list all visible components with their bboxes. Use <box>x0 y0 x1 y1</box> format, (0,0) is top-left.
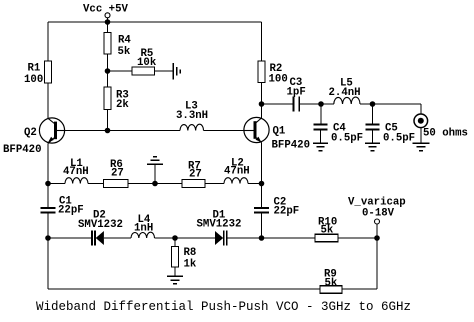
wire mid ground stem <box>154 164 156 184</box>
svg-text:0.5pF: 0.5pF <box>331 133 363 145</box>
resistor R4 <box>107 22 109 33</box>
resistor R1 <box>45 61 52 83</box>
wire top rail <box>48 21 262 23</box>
wire base row Q2 to L3 <box>65 130 180 132</box>
wire L5 to output <box>360 104 421 114</box>
ground right of R5 <box>173 63 180 80</box>
Vcc terminal <box>105 13 110 18</box>
inductor L2 <box>224 178 248 184</box>
svg-text:5k: 5k <box>325 278 338 290</box>
junction left mid row <box>45 181 51 187</box>
junction base row <box>105 128 111 134</box>
svg-text:Q2: Q2 <box>24 127 37 139</box>
svg-text:Wideband Differential Push-Pus: Wideband Differential Push-Push VCO - 3G… <box>36 300 411 314</box>
svg-text:27: 27 <box>111 168 124 180</box>
resistor R8 <box>174 238 176 247</box>
capacitor C4 <box>320 104 322 124</box>
svg-text:0.5pF: 0.5pF <box>383 133 415 145</box>
svg-text:SMV1232: SMV1232 <box>78 219 123 231</box>
capacitor C3 <box>262 103 293 105</box>
varactor diode D1 <box>215 231 223 245</box>
junction left diode row <box>45 235 51 241</box>
ground under C5 <box>365 143 380 151</box>
wire Vcc stem <box>107 18 109 22</box>
svg-text:1pF: 1pF <box>287 87 306 99</box>
svg-text:50 ohms: 50 ohms <box>423 128 468 140</box>
wire V_varicap down <box>376 238 378 289</box>
wire diode row left <box>48 237 91 239</box>
inductor L1 <box>48 183 65 185</box>
wire bottom rail <box>48 288 320 290</box>
resistor R2 <box>261 22 263 61</box>
svg-text:5k: 5k <box>118 46 131 58</box>
capacitor C5 <box>372 104 374 124</box>
inductor L4 <box>131 232 155 238</box>
transistor Q2 <box>3 118 65 156</box>
junction R4/R5/R3 <box>105 68 111 74</box>
capacitor C1 <box>47 184 49 208</box>
svg-text:5k: 5k <box>321 225 334 237</box>
svg-text:100: 100 <box>269 74 288 86</box>
ground middle inverted <box>147 157 163 164</box>
ground under output <box>412 143 429 151</box>
wire R4 to junction <box>107 54 109 71</box>
junction R8 node <box>172 235 178 241</box>
svg-text:100: 100 <box>24 74 43 86</box>
svg-text:Q1: Q1 <box>273 126 286 138</box>
svg-text:47nH: 47nH <box>224 166 250 178</box>
junction L5/C5 <box>370 101 376 107</box>
junction Vcc rail <box>105 19 111 25</box>
wire Q1 emitter down <box>261 142 263 183</box>
junction V_varicap <box>374 235 380 241</box>
junction right mid row <box>259 181 265 187</box>
wire R1 to Q2 collector <box>47 83 49 118</box>
varactor diode D2 <box>92 231 95 246</box>
transistor Q1 <box>244 117 310 151</box>
svg-text:1k: 1k <box>184 259 197 271</box>
svg-text:SMV1232: SMV1232 <box>197 219 242 231</box>
svg-text:27: 27 <box>189 169 202 181</box>
svg-text:R8: R8 <box>184 247 197 259</box>
resistor R5 <box>108 70 133 72</box>
junction mid ground <box>152 181 158 187</box>
inductor L3 <box>180 124 204 130</box>
svg-text:1nH: 1nH <box>134 223 153 235</box>
svg-text:22pF: 22pF <box>274 206 300 218</box>
wire left rail upper <box>47 22 49 61</box>
resistor R3 <box>107 71 109 87</box>
wire Q1 collector <box>261 104 263 118</box>
svg-text:BFP420: BFP420 <box>3 144 41 156</box>
svg-text:10k: 10k <box>137 57 157 69</box>
svg-text:2k: 2k <box>116 99 129 111</box>
svg-text:R1: R1 <box>28 63 41 75</box>
svg-text:3.3nH: 3.3nH <box>176 110 208 122</box>
resistor R7 <box>182 180 205 188</box>
output port 50 ohms <box>414 114 428 128</box>
wire left rail bottom <box>47 238 49 289</box>
junction right diode row <box>259 235 265 241</box>
svg-text:22pF: 22pF <box>58 205 84 217</box>
svg-text:47nH: 47nH <box>63 166 89 178</box>
inductor L5 <box>321 103 334 105</box>
capacitor C2 <box>261 184 263 208</box>
junction Q1 collector node <box>259 101 265 107</box>
ground under R8 <box>167 276 183 283</box>
resistor R10 <box>315 234 338 242</box>
wire Q2 emitter down to mid row <box>47 144 49 184</box>
resistor R6 <box>104 180 129 188</box>
svg-text:2.4nH: 2.4nH <box>329 87 361 99</box>
junction C3/L5/C4 <box>318 101 324 107</box>
ground under C4 <box>313 143 328 151</box>
svg-text:BFP420: BFP420 <box>272 140 310 152</box>
wire L3 to Q1 base <box>204 130 245 132</box>
svg-text:0-18V: 0-18V <box>362 208 395 220</box>
resistor R9 <box>320 286 342 294</box>
svg-text:R4: R4 <box>118 35 131 47</box>
